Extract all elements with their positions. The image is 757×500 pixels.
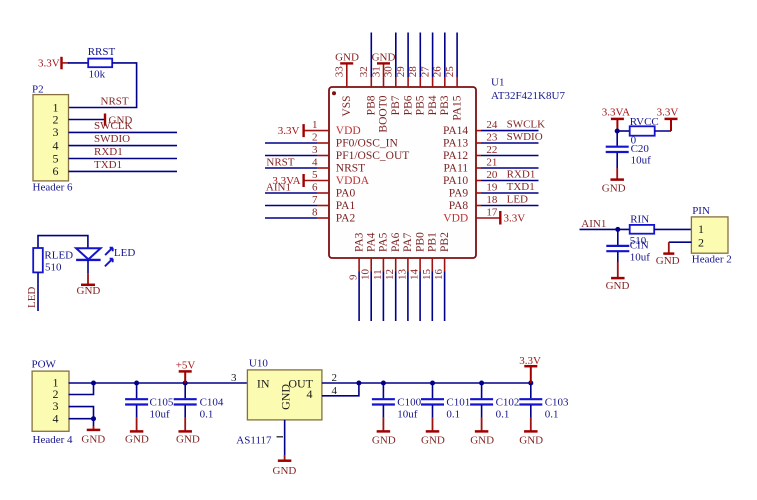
pin stub pin28 [419, 77, 421, 87]
svg-text:P2: P2 [32, 83, 44, 95]
pin stub pin11 [382, 258, 384, 272]
pin stub pin3 [317, 155, 329, 157]
pin stub pin16 [444, 258, 446, 272]
svg-text:0.1: 0.1 [545, 409, 559, 421]
svg-text:AIN1: AIN1 [581, 218, 606, 230]
connector P2 [32, 83, 69, 181]
svg-text:4: 4 [307, 387, 313, 401]
wire LED cathode down [87, 260, 89, 274]
svg-text:NRST: NRST [101, 96, 129, 108]
svg-text:17: 17 [486, 206, 498, 218]
svg-text:VDD: VDD [443, 213, 468, 225]
svg-text:PB0: PB0 [414, 232, 426, 252]
svg-text:3.3V: 3.3V [657, 107, 679, 119]
wire RIN to PIN header [654, 228, 691, 230]
power port 3.3V (RVCC right) [657, 107, 679, 132]
svg-text:GND: GND [125, 434, 149, 446]
svg-text:GND: GND [470, 434, 494, 446]
pin stub pin12 [395, 258, 397, 272]
wire pin23 (right) [481, 142, 539, 144]
power port +5V [176, 360, 196, 383]
wire RXD1 (P2 pin5) [69, 158, 178, 160]
op-amp U1 body (AT32F421K8U7 MCU) [329, 87, 476, 258]
pin stub pin7 [317, 205, 329, 207]
svg-text:PA10: PA10 [443, 175, 468, 187]
svg-text:10uf: 10uf [397, 409, 418, 421]
svg-text:PA12: PA12 [443, 150, 468, 162]
wire POW pin3 down [69, 407, 94, 419]
pin stub pin21 [476, 167, 481, 169]
svg-text:14: 14 [409, 269, 421, 281]
svg-text:RXD1: RXD1 [94, 146, 123, 158]
svg-text:C104: C104 [200, 396, 224, 408]
LED arrows [105, 248, 113, 267]
ground GND (PIN pin2) [656, 242, 680, 267]
wire P2 pin2 to GND [69, 119, 106, 121]
svg-text:3: 3 [231, 372, 237, 384]
node POW pin1 junction [91, 381, 96, 386]
wire pin25 (top) [456, 33, 458, 78]
svg-text:25: 25 [444, 66, 456, 78]
wire 3.3VA node to RVCC [617, 130, 630, 132]
wire pin13 (bottom) [407, 272, 409, 322]
svg-text:RLED: RLED [44, 250, 73, 262]
svg-text:4: 4 [312, 156, 318, 168]
wire RVCC to 3.3V [655, 130, 671, 132]
svg-text:PA11: PA11 [443, 163, 468, 175]
svg-text:C103: C103 [545, 396, 569, 408]
svg-text:PA4: PA4 [365, 232, 377, 252]
wire pin11 (bottom) [382, 272, 384, 322]
svg-text:23: 23 [486, 131, 498, 143]
svg-text:GND: GND [519, 434, 543, 446]
wire pin32 (top) [370, 33, 372, 78]
svg-text:1: 1 [312, 119, 318, 131]
pin stub pin1 + power port 3.3V [278, 124, 329, 137]
wire pin26 (top) [444, 33, 446, 78]
wire pin29 (top) [407, 33, 409, 78]
svg-text:3.3V: 3.3V [38, 57, 60, 69]
wire pin2 (left) [265, 142, 317, 144]
svg-text:NRST: NRST [336, 163, 365, 175]
wire POW pin2 up to pin1 [69, 383, 94, 395]
wire pin22 (right) [481, 155, 539, 157]
svg-text:SWDIO: SWDIO [507, 131, 543, 143]
wire pin28 (top) [419, 33, 421, 78]
node C100 junction [381, 381, 386, 386]
power port 3.3V (RRST pullup) [38, 57, 69, 70]
svg-text:SWCLK: SWCLK [507, 118, 546, 130]
wire pin14 (bottom) [419, 272, 421, 322]
ground GND (P2 pin2) [105, 114, 132, 127]
capacitor CIN 10uf [606, 240, 650, 264]
wire 3.3VA node down to C20 [616, 131, 618, 146]
svg-text:GND: GND [606, 280, 630, 292]
pin stub pin10 [370, 258, 372, 272]
pin stub pin25 [456, 77, 458, 87]
svg-text:3.3VA: 3.3VA [602, 107, 630, 119]
pin stub pin13 [407, 258, 409, 272]
svg-text:2: 2 [332, 372, 338, 384]
svg-text:10uf: 10uf [631, 155, 652, 167]
node C103 junction [528, 381, 533, 386]
svg-text:6: 6 [53, 164, 59, 178]
wire SWCLK (P2 pin3) [69, 131, 178, 133]
node C102 junction [479, 381, 484, 386]
svg-text:C100: C100 [397, 396, 421, 408]
svg-text:19: 19 [486, 181, 498, 193]
ground GND (pin33 VSS) [335, 52, 359, 87]
pin stub pin2 [317, 142, 329, 144]
svg-text:RVCC: RVCC [630, 116, 659, 128]
svg-text:NRST: NRST [266, 156, 294, 168]
svg-text:11: 11 [372, 269, 384, 280]
svg-text:RRST: RRST [88, 46, 116, 58]
svg-text:1: 1 [698, 222, 704, 236]
node POW pin4 junction [91, 416, 96, 421]
ground GND (pin31 BOOT0) [372, 52, 396, 87]
capacitor C104 0.1 [174, 383, 224, 421]
svg-text:C102: C102 [496, 396, 520, 408]
svg-text:0.1: 0.1 [200, 409, 214, 421]
pin stub pin5 + power port 3.3VA [272, 174, 329, 187]
svg-text:PA1: PA1 [336, 200, 356, 212]
svg-text:C105: C105 [150, 396, 174, 408]
wire pin27 (top) [432, 33, 434, 78]
svg-text:33: 33 [334, 66, 346, 78]
svg-text:PIN: PIN [692, 205, 710, 217]
svg-text:RIN: RIN [630, 214, 649, 226]
svg-text:10: 10 [360, 269, 372, 281]
capacitor C105 10uf [125, 383, 174, 421]
wire pin12 (bottom) [395, 272, 397, 322]
pin stub pin17 + power port 3.3V [476, 211, 525, 225]
svg-text:GND: GND [656, 255, 680, 267]
wire pin10 (bottom) [370, 272, 372, 322]
svg-text:29: 29 [395, 66, 407, 78]
label AS1117 [236, 435, 283, 447]
svg-text:22: 22 [486, 144, 497, 156]
svg-text:VDD: VDD [336, 125, 361, 137]
svg-text:PA9: PA9 [449, 188, 469, 200]
svg-text:GND: GND [176, 434, 200, 446]
wire pin20 (right) [481, 180, 539, 182]
svg-text:27: 27 [419, 66, 431, 78]
node AIN1 junction [615, 227, 620, 232]
pin stub pin4 [317, 167, 329, 169]
svg-text:20: 20 [486, 169, 498, 181]
svg-text:PA2: PA2 [336, 213, 356, 225]
capacitor C102 0.1 [470, 383, 519, 421]
svg-text:GND: GND [278, 384, 292, 410]
wire pin16 (bottom) [444, 272, 446, 322]
ground GND (C20) [602, 153, 626, 195]
resistor RRST [88, 46, 116, 80]
svg-text:PA3: PA3 [353, 232, 365, 252]
svg-text:4: 4 [53, 411, 59, 425]
pin stub pin14 [419, 258, 421, 272]
svg-text:Header 2: Header 2 [692, 254, 732, 266]
ground GND (POW) [81, 419, 105, 446]
svg-text:PA6: PA6 [390, 232, 402, 252]
svg-text:GND: GND [372, 52, 396, 64]
svg-text:GND: GND [273, 465, 297, 477]
ground GND (LED) [77, 273, 101, 297]
svg-text:4: 4 [53, 138, 59, 152]
node C105 junction [134, 381, 139, 386]
svg-text:10uf: 10uf [150, 409, 171, 421]
svg-text:4: 4 [332, 385, 338, 397]
svg-text:16: 16 [433, 269, 445, 281]
svg-text:GND: GND [335, 52, 359, 64]
svg-text:0.1: 0.1 [496, 409, 510, 421]
power port 3.3V (rail) [519, 355, 541, 383]
wire pin8 (left) [265, 217, 317, 219]
node +5V junction [183, 381, 188, 386]
svg-text:PA0: PA0 [336, 188, 356, 200]
svg-text:IN: IN [257, 376, 270, 390]
svg-text:3.3V: 3.3V [504, 213, 526, 225]
svg-text:U10: U10 [249, 358, 268, 370]
svg-text:PA7: PA7 [402, 232, 414, 252]
pin stub pin9 [358, 258, 360, 272]
svg-text:Header 6: Header 6 [33, 181, 74, 193]
svg-text:TXD1: TXD1 [507, 181, 535, 193]
svg-text:510: 510 [45, 262, 62, 274]
ground GND (C103) [519, 405, 543, 446]
svg-text:AIN1: AIN1 [266, 181, 291, 193]
svg-text:13: 13 [396, 269, 408, 281]
ground GND (U10) [273, 420, 297, 477]
svg-text:32: 32 [358, 66, 370, 77]
wire U10 OUT pin2 [322, 382, 359, 384]
ground GND (C100) [372, 405, 396, 446]
pin stub pin19 [476, 192, 481, 194]
svg-text:PB6: PB6 [402, 95, 414, 115]
pin stub pin8 [317, 217, 329, 219]
svg-text:PB7: PB7 [390, 95, 402, 115]
capacitor C103 0.1 [519, 383, 569, 421]
resistor RLED 510 [33, 248, 73, 274]
pin stub pin18 [476, 205, 481, 207]
svg-text:PA14: PA14 [443, 125, 468, 137]
svg-text:SWDIO: SWDIO [94, 133, 130, 145]
svg-text:10k: 10k [89, 69, 106, 81]
svg-text:7: 7 [312, 194, 318, 206]
svg-text:BOOT0: BOOT0 [378, 95, 390, 132]
svg-text:VDDA: VDDA [336, 175, 370, 187]
capacitor C20 10uf [606, 143, 651, 167]
svg-text:15: 15 [421, 269, 433, 281]
wire 3.3V to RRST [68, 62, 88, 64]
svg-text:PA13: PA13 [443, 138, 468, 150]
regulator U10 AS1117 [247, 370, 322, 420]
wire pin6 (left) [265, 192, 317, 194]
resistor RVCC 0 [630, 116, 659, 146]
wire LED net (below RLED) [37, 272, 39, 311]
svg-text:3: 3 [312, 144, 318, 156]
wire pin4 (left) [265, 167, 317, 169]
ground GND (CIN) [606, 252, 630, 292]
svg-text:3.3V: 3.3V [519, 355, 541, 367]
svg-text:2: 2 [312, 131, 318, 143]
pin stub pin30 [395, 77, 397, 87]
svg-text:VSS: VSS [341, 96, 353, 117]
svg-text:PB3: PB3 [439, 95, 451, 115]
wire PIN pin2 to GND [669, 241, 692, 243]
svg-text:PB2: PB2 [439, 232, 451, 252]
svg-text:LED: LED [114, 247, 135, 259]
pin stub pin15 [431, 258, 433, 272]
wire 3.3V rail [359, 382, 531, 384]
svg-text:RXD1: RXD1 [507, 168, 536, 180]
svg-text:PB1: PB1 [427, 232, 439, 252]
wire pin3 (left) [265, 155, 317, 157]
svg-text:PA5: PA5 [378, 232, 390, 252]
wire pin7 (left) [265, 205, 317, 207]
pin stub pin23 [476, 142, 481, 144]
wire RLED top to LED anode [38, 236, 88, 249]
svg-text:3: 3 [53, 125, 59, 139]
svg-text:9: 9 [348, 274, 360, 280]
svg-text:PA8: PA8 [449, 200, 469, 212]
pin stub pin24 [476, 130, 481, 132]
svg-text:GND: GND [81, 434, 105, 446]
ground GND (C101) [421, 405, 445, 446]
pin stub pin20 [476, 180, 481, 182]
svg-text:AS1117: AS1117 [236, 435, 272, 447]
resistor RIN 510 [630, 214, 655, 248]
svg-text:PF0/OSC_IN: PF0/OSC_IN [336, 138, 399, 150]
node 3.3VA junction [615, 129, 620, 134]
svg-text:U1: U1 [491, 77, 504, 89]
svg-text:TXD1: TXD1 [94, 159, 122, 171]
node OUT junction [356, 381, 361, 386]
svg-text:PA15: PA15 [451, 95, 463, 120]
svg-text:AT32F421K8U7: AT32F421K8U7 [491, 90, 565, 102]
svg-text:GND: GND [421, 434, 445, 446]
svg-text:24: 24 [486, 119, 498, 131]
svg-text:2: 2 [698, 235, 704, 249]
svg-text:12: 12 [384, 269, 396, 280]
svg-text:8: 8 [312, 206, 318, 218]
svg-text:LED: LED [26, 287, 38, 308]
svg-text:0.1: 0.1 [446, 409, 460, 421]
wire U10 OUT pin4 [322, 383, 359, 396]
wire pin21 (right) [481, 167, 539, 169]
pin stub pin6 [317, 192, 329, 194]
ground GND (C104) [176, 405, 200, 446]
svg-text:LED: LED [507, 193, 528, 205]
wire AIN1 to RIN [580, 228, 630, 230]
svg-text:30: 30 [383, 66, 395, 78]
svg-text:5: 5 [312, 169, 318, 181]
svg-text:10uf: 10uf [630, 251, 651, 263]
capacitor C101 0.1 [421, 383, 470, 421]
svg-text:5: 5 [53, 151, 59, 165]
svg-text:PB8: PB8 [366, 95, 378, 115]
svg-text:GND: GND [77, 285, 101, 297]
ground GND (C102) [470, 405, 494, 446]
svg-text:CIN: CIN [630, 240, 649, 252]
wire pin19 (right) [481, 192, 539, 194]
pin stub pin32 [370, 77, 372, 87]
wire SWDIO (P2 pin4) [69, 145, 178, 147]
wire pin9 (bottom) [358, 272, 360, 322]
wire pin30 (top) [395, 33, 397, 78]
pin stub pin22 [476, 155, 481, 157]
svg-text:C101: C101 [446, 396, 470, 408]
svg-text:PF1/OSC_OUT: PF1/OSC_OUT [336, 150, 410, 162]
svg-text:21: 21 [486, 156, 497, 168]
svg-text:18: 18 [486, 194, 498, 206]
wire NRST from RRST to P2 pin1 [69, 63, 137, 108]
wire pin24 (right) [481, 130, 539, 132]
svg-text:C20: C20 [631, 143, 650, 155]
node C101 junction [430, 381, 435, 386]
capacitor C100 10uf [372, 383, 422, 421]
svg-text:PB5: PB5 [415, 95, 427, 115]
power port 3.3VA (RVCC) [602, 107, 630, 132]
pin stub pin26 [444, 77, 446, 87]
svg-text:GND: GND [602, 182, 626, 194]
svg-text:PB4: PB4 [427, 95, 439, 115]
svg-text:2: 2 [53, 112, 59, 126]
wire pin18 (right) [481, 205, 539, 207]
connector PIN (Header 2) [691, 205, 728, 253]
wire AIN1 node down to CIN [617, 229, 619, 245]
LED diode [76, 248, 101, 260]
svg-text:3.3V: 3.3V [278, 125, 300, 137]
pin stub pin29 [407, 77, 409, 87]
wire pin15 (bottom) [431, 272, 433, 322]
wire TXD1 (P2 pin6) [69, 170, 178, 172]
wire POW pin4 [69, 418, 94, 420]
svg-text:6: 6 [312, 181, 318, 193]
svg-text:+5V: +5V [176, 360, 196, 372]
svg-text:SWCLK: SWCLK [94, 120, 133, 132]
svg-text:POW: POW [32, 359, 57, 371]
pin stub pin27 [432, 77, 434, 87]
svg-text:GND: GND [372, 434, 396, 446]
connector POW (Header 4) [32, 359, 70, 432]
svg-text:Header 4: Header 4 [33, 434, 74, 446]
ground GND (C105) [125, 405, 149, 446]
wire +5V rail POW to U10 [69, 382, 248, 384]
